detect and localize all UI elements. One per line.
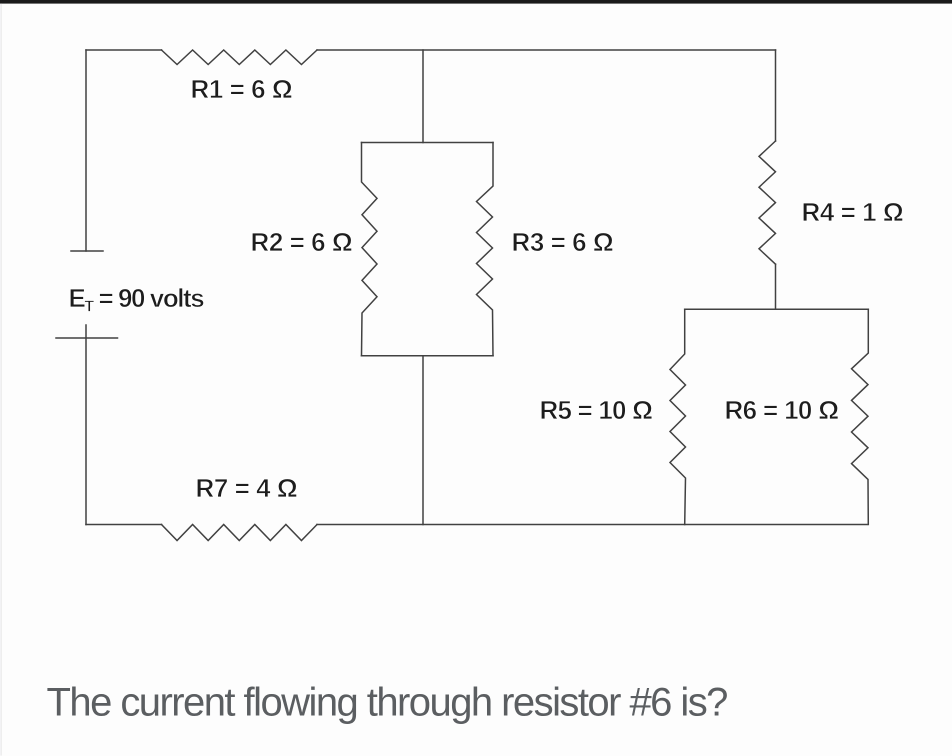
resistor R6 [852, 309, 869, 524]
battery ET plate long [56, 337, 118, 339]
wire R4 bottom lead [775, 264, 777, 309]
top black bar [0, 0, 952, 4]
wire middle top leg [422, 50, 424, 143]
resistor R7 [162, 525, 318, 541]
svg-text:R4 = 1 Ω: R4 = 1 Ω [802, 197, 904, 227]
battery ET plate short [71, 250, 103, 252]
svg-text:R2 = 6 Ω: R2 = 6 Ω [251, 227, 353, 257]
svg-text:R1 = 6 Ω: R1 = 6 Ω [191, 74, 293, 104]
wire box2 top [685, 308, 869, 310]
wire battery bottom lead [85, 325, 87, 525]
wire R4 top lead [775, 50, 777, 141]
resistor R1 [162, 50, 318, 65]
resistor R5 [670, 309, 686, 524]
resistor R3 [477, 143, 494, 356]
wire box1 bottom [362, 355, 494, 357]
left edge line [1, 4, 2, 756]
wire top left [86, 49, 162, 51]
resistor R4 [759, 141, 776, 264]
wire bottom left [86, 524, 162, 526]
svg-text:R6 = 10 Ω: R6 = 10 Ω [725, 395, 839, 425]
wire middle bottom leg [422, 356, 424, 525]
svg-text:R7 = 4 Ω: R7 = 4 Ω [196, 473, 298, 503]
svg-text:R3 = 6 Ω: R3 = 6 Ω [512, 227, 614, 257]
svg-text:R5 = 10 Ω: R5 = 10 Ω [540, 395, 653, 425]
wire left (battery top lead) [85, 50, 87, 251]
wire bottom right [317, 524, 867, 526]
wire box1 top [362, 142, 494, 144]
resistor R2 [362, 143, 378, 356]
svg-text:The current flowing through re: The current flowing through resistor #6 … [47, 681, 728, 725]
wire top right [317, 49, 776, 51]
